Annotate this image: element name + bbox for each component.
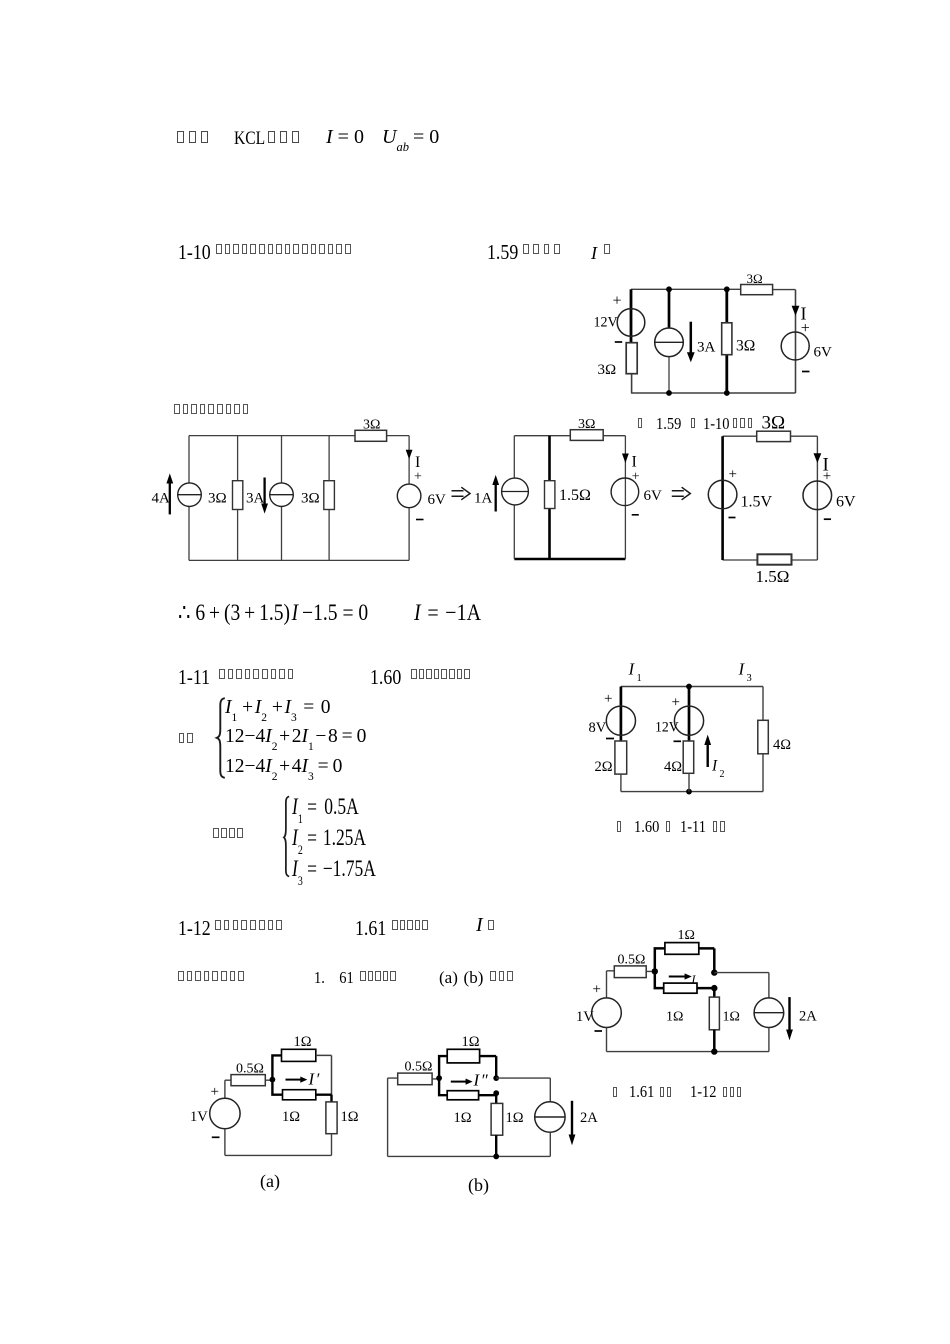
svg-text:1Ω: 1Ω [678,928,695,943]
svg-text:3Ω: 3Ω [747,271,763,286]
svg-text:I: I [632,454,637,471]
svg-text:6V: 6V [644,488,663,504]
svg-text:I ″: I ″ [473,1071,489,1090]
svg-text:1: 1 [637,673,642,684]
svg-text:6V: 6V [814,345,833,361]
svg-text:+: + [672,695,680,711]
svg-text:1Ω: 1Ω [462,1034,480,1050]
svg-text:1Ω: 1Ω [723,1010,740,1025]
svg-text:I: I [711,758,718,775]
svg-text:1Ω: 1Ω [282,1109,300,1125]
svg-text:+: + [593,982,601,998]
svg-text:2A: 2A [580,1110,598,1126]
svg-text:1.5V: 1.5V [741,494,773,511]
svg-text:+: + [632,470,640,485]
svg-text:0.5Ω: 0.5Ω [618,953,646,968]
svg-text:3Ω: 3Ω [578,417,595,432]
svg-text:12V: 12V [655,719,679,735]
svg-text:1Ω: 1Ω [506,1110,524,1126]
svg-text:1Ω: 1Ω [666,1010,683,1025]
svg-text:2A: 2A [799,1009,817,1025]
svg-text:3A: 3A [697,340,716,356]
svg-text:6V: 6V [428,492,447,508]
svg-text:+: + [613,293,622,310]
svg-text:1V: 1V [190,1109,208,1125]
svg-text:4Ω: 4Ω [664,759,682,775]
svg-text:+: + [729,467,737,483]
svg-text:3Ω: 3Ω [598,362,617,378]
svg-text:0.5Ω: 0.5Ω [405,1060,433,1075]
svg-text:3: 3 [747,673,752,684]
svg-text:2: 2 [720,769,725,780]
svg-text:2Ω: 2Ω [595,759,613,775]
svg-text:1Ω: 1Ω [454,1110,472,1126]
svg-text:3A: 3A [246,491,265,507]
svg-text:+: + [801,320,810,337]
svg-text:8V: 8V [589,720,607,736]
svg-text:1.5Ω: 1.5Ω [559,487,591,504]
svg-text:1A: 1A [474,491,493,507]
svg-text:+: + [823,469,831,485]
svg-text:12V: 12V [594,314,619,330]
svg-text:3Ω: 3Ω [736,338,755,355]
svg-text:3Ω: 3Ω [363,418,380,433]
svg-text:+: + [211,1084,219,1100]
svg-text:3Ω: 3Ω [762,413,786,434]
svg-text:4Ω: 4Ω [773,737,791,753]
svg-text:I: I [415,454,420,471]
svg-text:1Ω: 1Ω [294,1034,312,1050]
svg-text:I: I [738,660,746,679]
svg-text:+: + [414,470,422,485]
svg-text:I: I [628,660,636,679]
svg-text:1.5Ω: 1.5Ω [756,567,790,586]
svg-text:0.5Ω: 0.5Ω [236,1062,264,1077]
svg-text:3Ω: 3Ω [208,491,227,507]
svg-text:+: + [604,691,612,707]
svg-text:3Ω: 3Ω [301,491,320,507]
svg-text:4A: 4A [152,491,171,507]
svg-text:1V: 1V [576,1009,594,1025]
svg-text:6V: 6V [836,494,856,511]
svg-text:1Ω: 1Ω [341,1109,359,1125]
svg-text:I ′: I ′ [308,1070,320,1089]
